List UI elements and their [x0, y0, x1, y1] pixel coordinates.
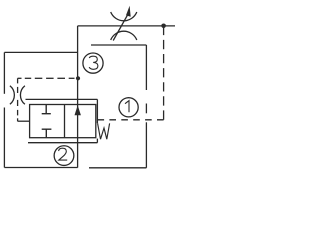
enclosure dashed vertical x=163.6	[163, 26, 165, 120]
variable orifice lower arc	[111, 31, 137, 40]
port circle 1	[119, 98, 138, 117]
wire: outer flow line bottom edge	[4, 167, 77, 169]
flow arrow head (right box, pointing up)	[75, 105, 81, 115]
wire: outer flow line left edge (lower segment)	[3, 108, 5, 168]
blocked port T (lower, left box)	[42, 129, 52, 138]
valve envelope (2-position body)	[30, 105, 96, 138]
fixed orifice right arc	[20, 86, 24, 105]
pilot stub into valve left	[18, 120, 30, 122]
wire: vertical main line x=78 from top line through valve to bottom	[77, 26, 79, 168]
valve position divider	[64, 105, 66, 138]
variable orifice adjust arrow head	[126, 6, 131, 17]
wire: top pilot line from valve to port 1 junction	[78, 25, 175, 27]
port 2 label digit	[59, 148, 68, 160]
spring W	[98, 123, 110, 139]
port 1 line: bottom edge	[89, 167, 146, 169]
port circle 3	[83, 53, 103, 73]
pilot dashed line horizontal y=78.3	[18, 77, 22, 79]
throttling outer box: right edge lower stub	[96, 139, 98, 143]
throttling outer box: top line	[26, 98, 98, 100]
junction dot at top right	[161, 24, 166, 29]
port 1 line: right edge lower	[145, 122, 147, 168]
variable orifice adjust arrow shaft	[113, 14, 128, 41]
port circle 2	[54, 146, 74, 166]
blocked port T (upper, left box)	[42, 105, 51, 114]
enclosure dashed horizontal y=119.8	[98, 119, 164, 121]
port 3 label digit	[89, 56, 98, 69]
port 1 short dash below circle 1	[145, 104, 147, 114]
port 3 to port 1 solid link: top edge y=45	[91, 44, 146, 46]
wire: outer flow line top edge y=52.4	[4, 51, 77, 53]
port 1 label digit	[125, 101, 129, 113]
wire: outer flow line left edge (upper segment)	[3, 52, 5, 93]
pilot dashed line vertical x=17.6	[17, 78, 19, 83]
port 3 to port 1 solid link: right edge upper	[145, 45, 147, 90]
junction dot at pilot tee	[76, 76, 80, 80]
throttling outer box: right edge upper	[96, 99, 98, 123]
fixed orifice left arc	[10, 86, 14, 105]
throttling outer box: bottom line	[28, 142, 97, 144]
variable orifice upper arc	[111, 12, 137, 21]
